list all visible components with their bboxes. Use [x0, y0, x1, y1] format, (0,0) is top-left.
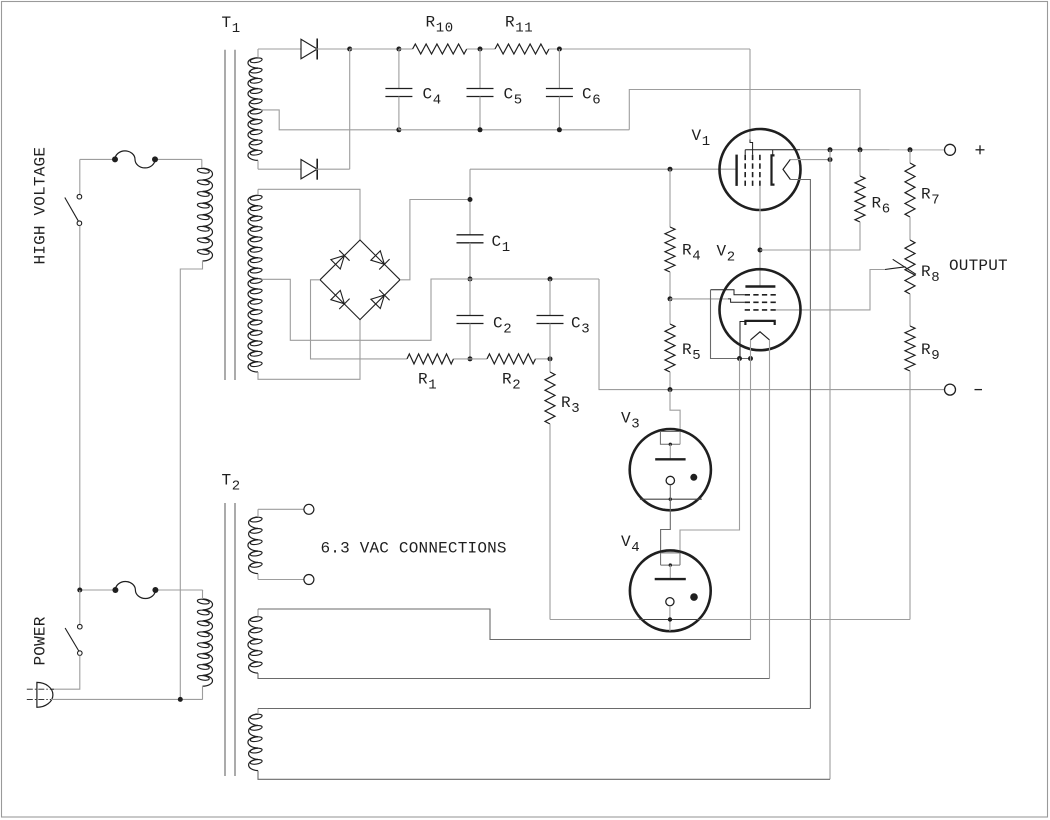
wire junction down to D2	[349, 49, 351, 169]
wire bottom bus R3 to R9	[550, 619, 910, 621]
wire T2 primary top lead	[202, 590, 204, 599]
svg-text:11: 11	[515, 20, 533, 36]
svg-text:R: R	[921, 186, 931, 204]
resistor R10	[413, 44, 467, 54]
transformer T2 primary winding	[203, 599, 213, 686]
svg-text:3: 3	[631, 417, 640, 433]
svg-text:7: 7	[931, 193, 940, 209]
svg-text:R: R	[921, 263, 931, 281]
svg-text:T: T	[222, 14, 232, 32]
transformer T1 core	[224, 50, 226, 380]
wire R7 top lead	[909, 150, 911, 163]
svg-text:OUTPUT: OUTPUT	[949, 257, 1008, 275]
resistor R4	[665, 227, 675, 272]
svg-text:C: C	[571, 315, 581, 333]
V1 plate bracket	[772, 155, 775, 184]
wire V1 cathode top to 830 drop	[790, 159, 830, 161]
transformer T2 core	[224, 503, 226, 776]
bridge diode top-left	[331, 256, 345, 270]
svg-text:8: 8	[931, 270, 940, 286]
V4 bottom chord	[639, 619, 700, 621]
wire R10 left lead	[399, 48, 413, 50]
wire heater winding3 bottom to x830 drop	[258, 771, 830, 780]
svg-text:4: 4	[692, 249, 701, 265]
wire minus bus drop	[599, 279, 945, 390]
V4 anode bar	[655, 578, 686, 580]
wire minus bus to V3 top	[670, 390, 680, 445]
wire 6.3VAC top terminal	[257, 509, 259, 517]
transformer T1 LV secondary (bottom)	[248, 195, 258, 372]
wire T1 primary bottom lead	[180, 261, 202, 699]
wire plug to T2 primary	[51, 698, 203, 700]
wire bottom return bus of doubler	[399, 129, 629, 131]
svg-text:1: 1	[702, 134, 711, 150]
fuse F1 (high voltage)	[115, 151, 155, 168]
wire R6 bottom to V1/V2 node	[760, 222, 860, 250]
wire R4-R5 node	[669, 272, 671, 299]
V2 cathode connector down	[740, 322, 745, 359]
wire grid feed to V1	[470, 168, 737, 170]
fuse F2 (power)	[115, 582, 155, 599]
V3 gas dot	[690, 474, 697, 481]
wire secondary top to diode D1	[257, 49, 259, 58]
svg-text:R: R	[426, 13, 436, 31]
transformer T2 heater winding 3	[248, 714, 258, 771]
wire heater winding2 bottom to V2 heater right	[258, 673, 770, 678]
V1 grid dashed columns	[744, 155, 746, 186]
wire secondary bottom to diode D2	[257, 160, 259, 169]
resistor R7	[905, 163, 915, 217]
V4 anode lead	[669, 565, 671, 579]
wire R8-R9	[909, 294, 911, 326]
R8 wiper arrow	[885, 267, 906, 270]
resistor R5	[669, 299, 671, 324]
svg-text:1: 1	[502, 240, 511, 256]
resistor R2	[487, 354, 536, 364]
wire R5 bottom to minus bus	[669, 372, 671, 390]
wire switch to plug	[51, 655, 80, 689]
resistor R1	[407, 354, 454, 364]
resistor R3	[549, 359, 551, 372]
svg-text:4: 4	[631, 540, 640, 556]
wire plus rail	[745, 149, 800, 151]
svg-text:R: R	[505, 13, 515, 31]
diode D1	[301, 39, 317, 58]
wire power top	[80, 589, 116, 591]
V3 anode bar	[655, 458, 685, 460]
wire center-tap return of top secondary	[261, 110, 399, 130]
V3 anode lead	[669, 444, 671, 459]
wire D1 cathode to junction	[316, 48, 350, 50]
wire R9 bottom long drop	[909, 371, 911, 620]
V2 grid row1 connector	[711, 290, 745, 295]
wire V1 grid feed node down C1	[469, 169, 471, 235]
wire bridge minus to R1	[311, 280, 408, 359]
wire secondary center tap	[262, 279, 471, 340]
bridge diode bottom-left	[331, 290, 345, 303]
svg-text:5: 5	[692, 348, 701, 364]
wire bridge plus up to C1 node	[400, 200, 470, 280]
wire C1 bottom to bus	[469, 243, 471, 279]
resistor R11	[495, 44, 549, 54]
V3 top cap box	[660, 432, 680, 445]
svg-text:R: R	[502, 371, 512, 389]
svg-text:3: 3	[571, 401, 580, 417]
capacitor C2	[469, 279, 471, 316]
svg-text:C: C	[582, 86, 592, 104]
svg-text:POWER: POWER	[32, 616, 50, 665]
diode D2	[301, 160, 317, 179]
wire T2 primary bottom lead	[202, 686, 204, 699]
capacitor C4	[398, 49, 400, 89]
svg-text:10: 10	[436, 20, 454, 36]
wire R11 right junction to V1 grid drop	[549, 48, 750, 50]
V2 grid dashed rows	[745, 294, 776, 296]
wire 6.3VAC bottom terminal	[257, 574, 259, 580]
svg-text:C: C	[493, 315, 503, 333]
bridge diode top-right	[371, 251, 385, 264]
svg-text:V: V	[621, 410, 631, 428]
svg-text:V: V	[717, 243, 727, 261]
terminal minus	[945, 384, 956, 395]
wire heater left leg down	[750, 340, 752, 640]
wire from S1 down to power junction	[79, 226, 81, 590]
wire V2 cathode node to V4	[680, 359, 740, 553]
V2 plate bar	[745, 285, 775, 287]
tube V1 envelope	[720, 129, 801, 210]
resistor R9	[905, 326, 915, 371]
potentiometer R8	[905, 240, 915, 294]
capacitor C3	[549, 279, 551, 316]
wire 279 bus	[431, 278, 599, 280]
wire V1 plate to V2 plate	[759, 186, 761, 287]
svg-text:R: R	[872, 195, 882, 213]
tube V3 envelope	[630, 429, 711, 510]
V3 bottom chord	[640, 498, 702, 500]
wire R2 right to R3 node	[536, 358, 551, 360]
wire heater winding3 top to V1 heater	[257, 709, 259, 715]
svg-text:6: 6	[882, 202, 891, 218]
V4 gas dot	[690, 593, 698, 601]
wire R10-R11 junction	[467, 48, 495, 50]
wire heater winding2 top to V2 heater	[257, 609, 259, 617]
capacitor C5	[479, 49, 481, 89]
svg-text:V: V	[621, 533, 631, 551]
capacitor C1	[457, 234, 484, 236]
bridge rectifier diamond	[320, 240, 400, 320]
svg-text:R: R	[682, 341, 692, 359]
bridge diode bottom-right	[371, 295, 385, 308]
terminal plus	[945, 144, 956, 155]
wire V3 cathode down to V4	[661, 485, 671, 553]
wire D2 cathode to junction	[316, 168, 350, 170]
svg-text:6.3 VAC CONNECTIONS: 6.3 VAC CONNECTIONS	[321, 540, 507, 558]
tube V2 envelope	[720, 269, 801, 350]
wire R4 top lead	[669, 169, 671, 227]
wire R4R5 node to V2 grid	[670, 298, 728, 300]
svg-text:5: 5	[514, 93, 523, 109]
svg-text:HIGH VOLTAGE: HIGH VOLTAGE	[32, 147, 50, 265]
wire V4 cathode to bottom bus	[669, 606, 671, 631]
V4 top cap box	[661, 553, 680, 565]
wire R8 wiper from V2	[776, 270, 885, 310]
svg-text:C: C	[492, 233, 502, 251]
svg-text:T: T	[222, 472, 232, 490]
wire R1-R2 node	[454, 358, 488, 360]
svg-text:1: 1	[232, 21, 241, 37]
wire top rail down to V1 grid cap	[749, 49, 751, 140]
svg-text:9: 9	[931, 348, 940, 364]
switch S1 (high voltage)	[79, 159, 81, 194]
wire row1 drop to cathode node	[711, 290, 751, 359]
svg-text:R: R	[682, 242, 692, 260]
transformer T2 heater winding 2	[248, 617, 258, 674]
svg-text:2: 2	[503, 322, 512, 338]
V3 cathode circle	[666, 476, 674, 484]
svg-text:1: 1	[428, 378, 437, 394]
resistor R6	[855, 176, 865, 222]
V2 cathode plate with ticks	[745, 321, 774, 325]
svg-text:6: 6	[592, 93, 601, 109]
wire secondary top to bridge top	[257, 189, 259, 195]
wire HV top	[80, 158, 115, 160]
svg-text:V: V	[692, 127, 702, 145]
V1 bracket riser to plus rail	[772, 150, 774, 156]
svg-text:C: C	[504, 86, 514, 104]
svg-text:C: C	[423, 86, 433, 104]
V2 heater	[751, 332, 770, 340]
transformer T2 6.3VAC winding	[248, 517, 258, 574]
svg-text:2: 2	[232, 479, 241, 495]
wire long drop x830 to T2 winding	[829, 150, 831, 780]
V1 grid cap jog	[750, 140, 753, 155]
wire R6 top lead	[859, 150, 861, 176]
V4 cathode circle	[666, 598, 674, 606]
transformer T1 HV secondary (top)	[248, 58, 258, 161]
wire R3 bottom down to bottom bus	[549, 424, 551, 620]
wire heater right leg down	[769, 340, 771, 679]
svg-text:R: R	[418, 371, 428, 389]
svg-text:R: R	[921, 341, 931, 359]
wire top rail to C4	[350, 48, 399, 50]
wire return bus up and over to plus rail	[629, 90, 860, 150]
tube V4 envelope	[630, 550, 711, 631]
wire T1 primary top lead	[201, 159, 203, 168]
wire V1 cathode bottom heater drop x810	[790, 180, 810, 709]
V1 cathode arrow	[783, 159, 790, 179]
V2 grid row2 connector	[728, 299, 745, 302]
svg-text:R: R	[561, 394, 571, 412]
switch S2 (power)	[79, 590, 81, 624]
transformer T1 primary winding	[203, 168, 213, 261]
svg-text:2: 2	[512, 378, 521, 394]
wire C2 bottom to R1R2 node	[469, 324, 471, 359]
capacitor C6	[558, 49, 560, 89]
AC plug	[37, 682, 53, 707]
V1 left electrode bar	[735, 155, 737, 186]
svg-text:3: 3	[581, 322, 590, 338]
svg-text:2: 2	[727, 250, 736, 266]
wire R7-R8	[909, 217, 911, 240]
svg-text:4: 4	[433, 93, 442, 109]
wire secondary bottom to bridge bottom	[258, 320, 360, 380]
